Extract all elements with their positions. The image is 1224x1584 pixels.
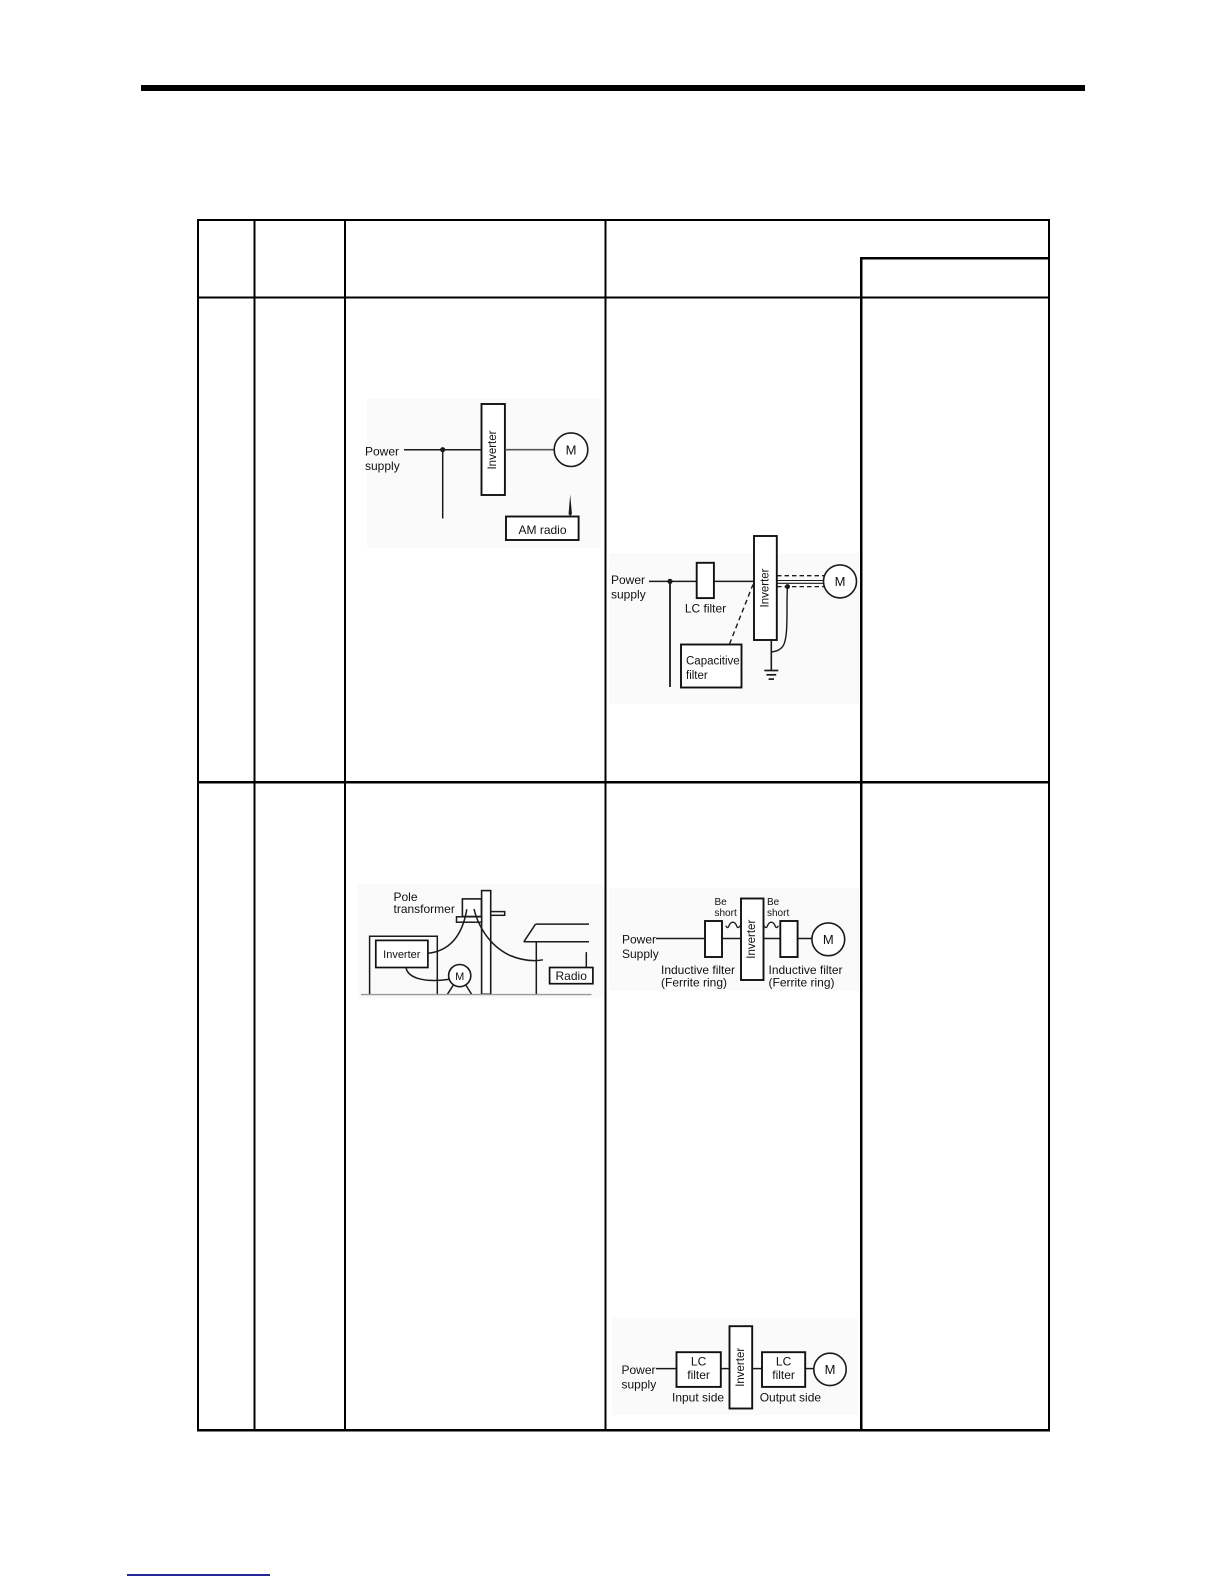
svg-text:LC filter: LC filter bbox=[685, 602, 726, 616]
antenna of AM radio bbox=[569, 495, 573, 517]
svg-text:Input side: Input side bbox=[672, 1391, 724, 1405]
wire inverter to output filter bbox=[764, 938, 781, 940]
motor M bbox=[812, 923, 845, 956]
label Power Supply bbox=[622, 933, 659, 961]
diagram 3: radiated noise scene with pole transformer bbox=[358, 884, 603, 998]
wire power supply to input LC filter bbox=[656, 1368, 677, 1370]
svg-text:AM radio: AM radio bbox=[518, 523, 566, 537]
diagram 3 background bbox=[358, 884, 603, 998]
wire output filter to motor bbox=[798, 938, 812, 940]
building outline bbox=[370, 936, 438, 994]
svg-text:filter: filter bbox=[686, 670, 708, 682]
top header rule bbox=[141, 85, 1085, 91]
wire power supply to input filter bbox=[656, 938, 705, 940]
inverter box bbox=[376, 940, 428, 967]
svg-text:supply: supply bbox=[611, 587, 646, 601]
motor M bbox=[814, 1353, 846, 1385]
motor leg left bbox=[447, 985, 453, 995]
svg-text:Inverter: Inverter bbox=[735, 1348, 747, 1387]
table bottom border bbox=[197, 1429, 1050, 1432]
node junction dot bbox=[440, 447, 445, 452]
inverter box bbox=[482, 404, 505, 495]
svg-text:Power: Power bbox=[622, 1363, 656, 1377]
svg-text:Capacitive: Capacitive bbox=[686, 656, 740, 668]
svg-text:Inverter: Inverter bbox=[487, 430, 499, 469]
diagram 5 background bbox=[612, 1318, 858, 1415]
LC filter L1 box bbox=[697, 563, 714, 598]
wire branch down bbox=[442, 450, 444, 519]
LC filter output box bbox=[762, 1352, 805, 1387]
node junction dot bbox=[667, 579, 672, 584]
diagram 2 background bbox=[609, 553, 859, 704]
brace left bbox=[726, 922, 740, 927]
svg-text:M: M bbox=[566, 442, 577, 457]
inverter box bbox=[730, 1326, 753, 1408]
wire input filter to inverter bbox=[722, 938, 741, 940]
svg-text:Power: Power bbox=[611, 573, 645, 587]
wire inverter to output LC filter bbox=[752, 1368, 762, 1370]
sub-header top border bbox=[860, 257, 1050, 259]
wire inverter to motor bbox=[505, 449, 554, 451]
wire inverter to motor bbox=[406, 968, 449, 981]
label Be short right bbox=[767, 897, 789, 919]
wire pole to house bbox=[474, 909, 543, 961]
svg-text:filter: filter bbox=[772, 1368, 795, 1382]
wire output filter to motor bbox=[805, 1368, 814, 1370]
svg-text:Output side: Output side bbox=[760, 1391, 822, 1405]
svg-text:Power: Power bbox=[365, 445, 399, 459]
wire inverter to pole bbox=[428, 909, 467, 953]
column line 4 bbox=[860, 257, 863, 1429]
svg-text:(Ferrite ring): (Ferrite ring) bbox=[769, 975, 835, 989]
svg-text:Radio: Radio bbox=[556, 969, 588, 983]
svg-text:short: short bbox=[767, 908, 789, 919]
ground line bbox=[361, 994, 592, 996]
dashed shield wire upper bbox=[777, 575, 824, 577]
wire power supply to inverter bbox=[649, 580, 754, 582]
brace right bbox=[764, 922, 778, 927]
crossarm left bbox=[457, 917, 482, 922]
pole transformer box bbox=[462, 899, 481, 917]
ground symbol bbox=[764, 671, 778, 680]
footer blue line bbox=[127, 1574, 270, 1576]
table left border bbox=[197, 219, 199, 1432]
diagram 2: LC filter and capacitive filter countermeasure bbox=[609, 536, 859, 704]
dashed shield wire lower bbox=[777, 586, 824, 588]
motor M bbox=[449, 965, 471, 987]
diagram 4: inductive ferrite ring filters bbox=[609, 888, 859, 991]
radio box bbox=[550, 968, 593, 984]
column line 3 bbox=[605, 219, 607, 1429]
svg-text:LC: LC bbox=[776, 1355, 792, 1369]
svg-text:M: M bbox=[835, 574, 846, 589]
node shield junction dot bbox=[785, 584, 790, 589]
label Inductive filter (Ferrite ring) left bbox=[661, 963, 735, 990]
motor leg right bbox=[466, 985, 472, 995]
svg-text:supply: supply bbox=[365, 459, 400, 473]
diagram 5: LC filters on input and output side bbox=[612, 1318, 858, 1415]
svg-text:M: M bbox=[455, 971, 464, 983]
label Be short left bbox=[715, 897, 737, 919]
table row divider bbox=[197, 781, 1050, 783]
diagram 4 background bbox=[609, 888, 859, 991]
house wall bbox=[535, 942, 537, 995]
diagram 1: inverter noise to AM radio bbox=[365, 399, 601, 548]
wire power supply to inverter bbox=[404, 449, 482, 451]
svg-text:M: M bbox=[823, 932, 834, 947]
label Inductive filter (Ferrite ring) right bbox=[769, 963, 843, 990]
svg-text:Inverter: Inverter bbox=[383, 949, 421, 961]
column line 1 bbox=[254, 219, 256, 1429]
table right border bbox=[1048, 219, 1050, 1429]
svg-text:filter: filter bbox=[687, 1368, 710, 1382]
svg-text:Be: Be bbox=[767, 897, 780, 908]
crossarm right bbox=[491, 912, 505, 916]
svg-text:transformer: transformer bbox=[394, 902, 455, 916]
svg-text:LC: LC bbox=[691, 1355, 707, 1369]
TABLE GRID bbox=[197, 219, 1050, 1432]
diagram 1 background bbox=[367, 399, 601, 548]
wire input filter to inverter bbox=[721, 1368, 730, 1370]
dashed leader from capacitive filter to inverter input bbox=[730, 585, 754, 645]
wire inverter to ground bbox=[770, 640, 772, 670]
table top border bbox=[197, 219, 1050, 221]
svg-text:Power: Power bbox=[622, 933, 656, 947]
table header bottom border bbox=[197, 297, 1050, 299]
inverter box bbox=[741, 899, 764, 981]
svg-text:Inverter: Inverter bbox=[759, 568, 771, 607]
motor M bbox=[824, 565, 857, 598]
svg-text:supply: supply bbox=[622, 1377, 657, 1391]
label Power supply bbox=[622, 1363, 657, 1391]
wire inverter to motor (double line) bbox=[777, 581, 824, 584]
inverter box bbox=[754, 536, 777, 640]
house roof eave bbox=[524, 941, 589, 943]
label Pole transformer bbox=[394, 890, 455, 916]
inductive filter input box bbox=[705, 921, 722, 957]
svg-text:Supply: Supply bbox=[622, 947, 659, 961]
motor M bbox=[554, 433, 588, 467]
wire shield to ground curve bbox=[771, 587, 787, 652]
svg-text:Be: Be bbox=[715, 897, 728, 908]
svg-text:Inverter: Inverter bbox=[746, 920, 758, 959]
inductive filter output box bbox=[780, 921, 797, 957]
radio antenna bbox=[585, 952, 587, 967]
svg-text:M: M bbox=[825, 1362, 836, 1377]
label Power supply bbox=[365, 445, 400, 473]
house roof top bbox=[536, 923, 589, 925]
AM radio box bbox=[506, 517, 579, 541]
svg-text:(Ferrite ring): (Ferrite ring) bbox=[661, 975, 727, 989]
capacitive filter box bbox=[681, 645, 742, 688]
label Power supply bbox=[611, 573, 646, 601]
LC filter input box bbox=[677, 1352, 721, 1387]
wire branch down bbox=[669, 581, 671, 687]
house roof gable bbox=[524, 924, 536, 942]
utility pole bbox=[482, 891, 491, 995]
column line 2 bbox=[344, 219, 346, 1429]
svg-text:short: short bbox=[715, 908, 737, 919]
